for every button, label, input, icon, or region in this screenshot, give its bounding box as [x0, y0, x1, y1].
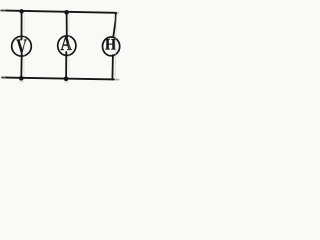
- wire: top bus faded left end: [1, 10, 7, 12]
- junction dot: bottom bus / V branch: [19, 76, 24, 81]
- wire: V branch upper: [21, 11, 23, 40]
- scan smudge under A bottom junction: [64, 81, 68, 84]
- scan ghost of right link: [115, 15, 116, 78]
- wire: right link upper (top corner to H meter): [113, 13, 116, 36]
- wire: A branch lower: [65, 52, 67, 78]
- junction blob: A circle top: [65, 35, 68, 38]
- scan smudge under V bottom junction: [19, 80, 23, 83]
- junction dot: bottom bus / A branch: [64, 76, 69, 81]
- svg-text:V: V: [16, 35, 27, 58]
- wire: bottom bus: [7, 78, 114, 80]
- svg-text:A: A: [61, 32, 72, 54]
- meter H1 circle: [103, 37, 120, 56]
- scan ghost of V branch: [23, 13, 25, 76]
- paper background: [0, 0, 130, 86]
- scan ghosting (faint): [24, 13, 116, 78]
- junction dot: top bus / A branch: [64, 10, 69, 15]
- junction blob: H circle bottom: [112, 54, 115, 57]
- ammeter A1 circle: [58, 36, 76, 56]
- wire: top-right corner overshoot: [116, 12, 118, 14]
- wire: bottom-right corner fade: [114, 78, 119, 80]
- wire: right link lower (H meter to bottom bus): [111, 55, 114, 79]
- scan ghost of A branch: [68, 14, 70, 77]
- junction dot: top bus / V branch: [19, 9, 24, 14]
- wire: bottom bus faded left end: [2, 77, 8, 79]
- wire: top bus: [7, 11, 116, 13]
- wire: A branch upper: [66, 12, 68, 38]
- wire: V branch lower: [20, 54, 22, 78]
- svg-text:H: H: [105, 35, 116, 53]
- voltmeter V1 circle: [12, 36, 32, 56]
